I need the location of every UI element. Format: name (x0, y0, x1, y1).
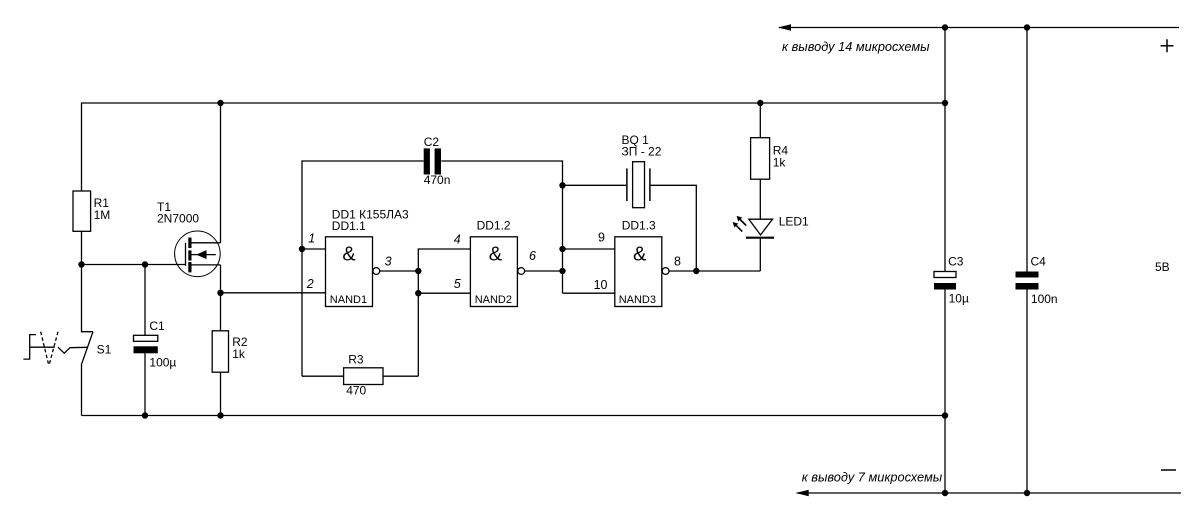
svg-text:&: & (342, 244, 356, 266)
node bottom rail / C3 (942, 490, 948, 496)
wire DD1.3 output (669, 270, 760, 272)
node R1/S1/gate line (78, 261, 84, 267)
svg-text:100µ: 100µ (149, 356, 176, 370)
svg-text:S1: S1 (97, 342, 112, 356)
arrow to pin 14 (778, 24, 791, 30)
wire bottom inner rail (82, 415, 946, 417)
node rail / C3 line bottom (942, 412, 948, 418)
node R4 / rail (757, 100, 763, 106)
svg-text:NAND3: NAND3 (619, 294, 656, 306)
svg-text:C3: C3 (948, 254, 964, 268)
svg-text:&: & (489, 244, 503, 266)
sensor wave link (58, 347, 87, 353)
svg-text:DD1.2: DD1.2 (477, 219, 511, 233)
sensor actuator bracket (23, 335, 54, 360)
resistor R3 (302, 375, 344, 377)
svg-text:ЗП - 22: ЗП - 22 (622, 144, 662, 158)
capacitor C4 (1026, 28, 1028, 272)
wire feedback vertical (418, 249, 470, 376)
node top rail / C4 (1024, 24, 1030, 30)
wire pin9 line (563, 248, 615, 250)
node R2 bottom (217, 412, 223, 418)
piezo BQ1 (563, 184, 627, 186)
wire T1 source (220, 265, 222, 293)
svg-text:C4: C4 (1031, 254, 1047, 268)
svg-text:8: 8 (674, 254, 681, 268)
arrow to pin 7 (796, 490, 809, 496)
capacitor C2 (424, 148, 430, 174)
svg-text:10: 10 (594, 278, 608, 292)
node pin1 (299, 246, 305, 252)
svg-text:R3: R3 (348, 353, 364, 367)
svg-text:5: 5 (454, 277, 461, 291)
node BQ1 right / LED (693, 268, 699, 274)
svg-text:470n: 470n (424, 173, 451, 187)
sensor dashed line left (41, 332, 49, 366)
svg-text:DD1.1: DD1.1 (332, 219, 366, 233)
wire DD1.1 output (380, 270, 419, 272)
LED arrow 2 (733, 222, 743, 232)
wire pin10 line (563, 292, 615, 294)
gate DD1.3 (615, 237, 662, 307)
wire R1 bottom (81, 231, 83, 264)
node bottom rail / C4 (1024, 490, 1030, 496)
node T1 drain / rail (217, 100, 223, 106)
gate DD1.2 (470, 237, 517, 307)
svg-text:10µ: 10µ (949, 292, 969, 306)
transistor T1 2N7000 (175, 231, 221, 277)
svg-text:4: 4 (454, 233, 461, 247)
node C1 top (142, 261, 148, 267)
node BQ1 left (559, 182, 565, 188)
wire gate node line (82, 264, 186, 266)
resistor R2 (220, 293, 222, 331)
wire C2 right net (441, 161, 562, 293)
svg-text:C1: C1 (149, 319, 165, 333)
svg-text:к выводу 14 микросхемы: к выводу 14 микросхемы (782, 39, 930, 54)
svg-text:3: 3 (385, 254, 392, 268)
resistor R1 (73, 191, 91, 231)
wire bottom negative rail (797, 492, 1181, 494)
LED LED1 (749, 219, 773, 235)
svg-text:NAND1: NAND1 (330, 294, 367, 306)
node T1 source / R2 / pin2 (217, 290, 223, 296)
wire DD1.2 output (525, 270, 563, 272)
svg-text:к выводу 7 микросхемы: к выводу 7 микросхемы (802, 470, 943, 485)
node top rail / C3 (942, 24, 948, 30)
svg-text:1k: 1k (232, 347, 246, 361)
svg-text:2: 2 (306, 277, 314, 291)
resistor R4 (759, 103, 761, 138)
node pin5 (415, 290, 421, 296)
svg-text:9: 9 (598, 231, 605, 245)
switch S1 (82, 265, 94, 332)
svg-text:100n: 100n (1031, 292, 1058, 306)
minus terminal (1161, 469, 1176, 471)
node rail / C3 line (942, 100, 948, 106)
svg-text:&: & (633, 244, 647, 266)
svg-text:470: 470 (346, 384, 366, 398)
svg-text:NAND2: NAND2 (475, 294, 512, 306)
node DD1.1 out (415, 268, 421, 274)
node DD1.2 out (559, 268, 565, 274)
svg-text:LED1: LED1 (779, 215, 809, 229)
wire pin1 line (302, 248, 326, 250)
plus terminal (1161, 39, 1174, 52)
svg-text:1k: 1k (773, 156, 787, 170)
svg-text:2N7000: 2N7000 (157, 212, 199, 226)
gate DD1.1 (326, 237, 373, 307)
sensor dashed line right (49, 332, 58, 366)
node pin9 (559, 246, 565, 252)
svg-text:5В: 5В (1155, 260, 1170, 274)
svg-text:C2: C2 (424, 135, 440, 149)
svg-text:DD1.3: DD1.3 (622, 218, 656, 232)
wire upper inner rail (82, 103, 946, 191)
LED arrow 1 (737, 216, 747, 226)
capacitor C1 (144, 265, 146, 336)
wire pin2 line (221, 292, 326, 294)
capacitor C3 (944, 28, 946, 272)
wire T1 drain (220, 103, 222, 243)
node C1 bottom (142, 412, 148, 418)
svg-text:1M: 1M (94, 208, 111, 222)
svg-text:6: 6 (529, 249, 536, 263)
wire top positive rail (779, 27, 1179, 29)
wire pin5 line (418, 292, 470, 294)
wire C2 left net (302, 161, 424, 376)
svg-text:1: 1 (308, 231, 315, 245)
